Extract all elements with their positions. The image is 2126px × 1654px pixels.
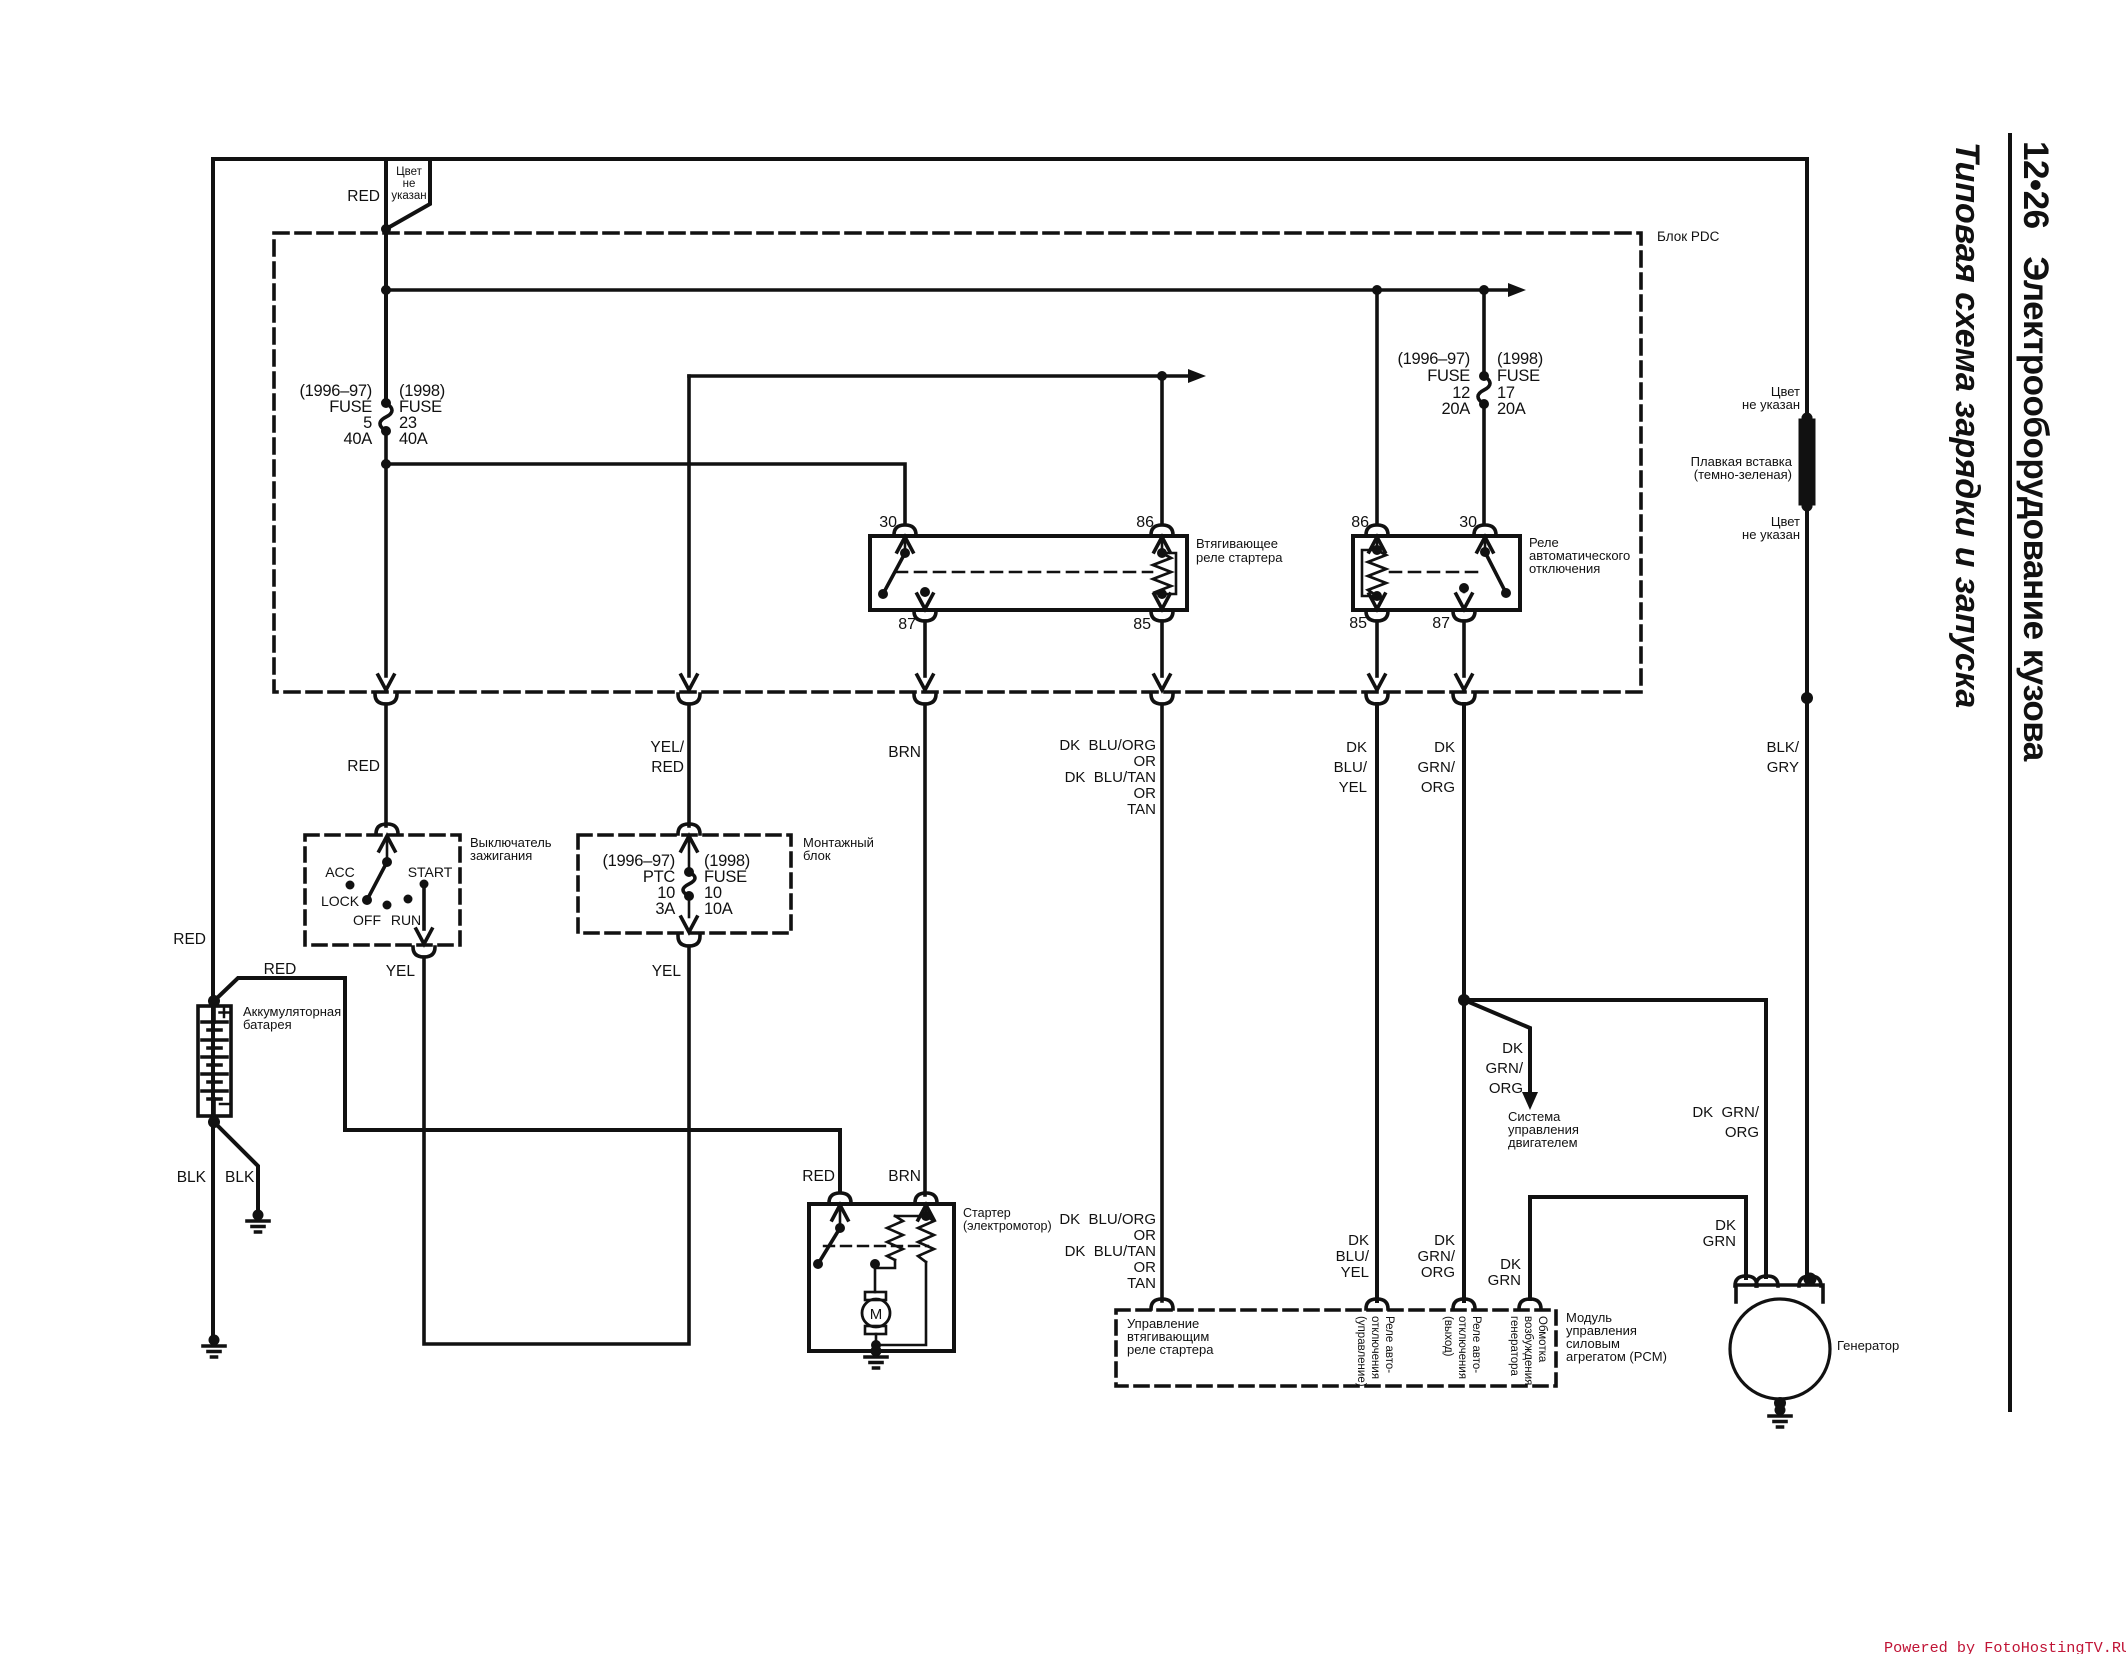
svg-text:BLK/: BLK/ [1766,739,1799,756]
PDC exit connector x=1377 [1369,675,1385,690]
svg-text:M: M [870,1306,883,1323]
relay K1 pin 30 connector [894,525,916,535]
svg-text:OR: OR [1134,785,1157,802]
ignition switch entry connector [376,824,398,834]
svg-text:(электромотор): (электромотор) [963,1219,1052,1233]
svg-text:BRN: BRN [888,1168,921,1185]
relay K2 (automatic shutdown relay) box [1353,536,1520,610]
svg-text:YEL: YEL [652,963,682,980]
node: junction dot at y=290 bus [381,285,391,295]
svg-text:ACC: ACC [325,864,355,880]
starter motor return loop [876,1262,926,1345]
relay K1 coil [1157,548,1167,558]
relay K2 switch [1480,547,1490,557]
junction block dashed box [578,835,791,933]
wire: x=1162 down to relay K1 pin 86 [1160,376,1164,524]
svg-text:40A: 40A [344,430,373,448]
battery (Аккумуляторная батарея) [198,1006,231,1116]
svg-text:12•26 Электрооборудование ку: 12•26 Электрооборудование кузова [2016,141,2055,762]
node: battery positive junction [208,995,220,1007]
svg-text:START: START [408,864,453,880]
svg-text:не указан: не указан [1742,527,1800,542]
wire: K2 pin 87 down to PDC edge [1462,621,1466,676]
wire: battery negative branch to ground [214,1122,258,1209]
wire: x=1377 from y=290 bus to relay K2 pin 86 [1375,290,1379,524]
PDC block dashed box [274,233,1641,692]
starter coil tap to motor [875,1260,895,1268]
svg-text:(1998): (1998) [1497,350,1543,368]
battery minus sign [220,1103,229,1106]
PCM entry connector x=1530 [1519,1299,1541,1309]
svg-text:блок: блок [803,848,831,863]
relay K2 internal dashed link [1390,571,1477,574]
svg-text:DK BLU/TAN: DK BLU/TAN [1065,1243,1156,1260]
svg-text:40A: 40A [399,430,428,448]
ground G1 bottom left [203,1335,225,1358]
relay K2 pin 85 [1369,594,1385,609]
starter motor box [809,1204,954,1351]
svg-text:TAN: TAN [1127,801,1156,818]
svg-text:не: не [403,178,416,190]
node: battery negative junction [208,1116,220,1128]
node: dot on generator BLK/GRY terminal [1804,1273,1817,1286]
wire: K1 pin 85 down to PDC edge [1160,621,1164,676]
svg-text:Powered by FotoHostingTV.RU: Powered by FotoHostingTV.RU [1884,1639,2126,1654]
node: junction dot x=1484 on y=290 bus [1479,285,1489,295]
svg-text:87: 87 [898,616,916,633]
ignition switch dashed box [305,835,460,945]
svg-text:Генератор: Генератор [1837,1338,1899,1353]
svg-text:BRN: BRN [888,744,921,761]
svg-text:87: 87 [1432,615,1450,632]
svg-text:ORG: ORG [1725,1124,1759,1141]
starter BRN entry connector [915,1193,937,1203]
fuse F3 (junction block) [684,867,694,877]
wire: x=1484 from y=290 bus to fuse F2 [1482,290,1486,376]
svg-text:FUSE: FUSE [1497,367,1540,385]
svg-text:DK BLU/ORG: DK BLU/ORG [1059,737,1156,754]
svg-text:зажигания: зажигания [470,848,532,863]
svg-text:(темно-зеленая): (темно-зеленая) [1694,467,1792,482]
node: junction dot x=1377 on y=290 bus [1372,285,1382,295]
svg-text:(1996–97): (1996–97) [1397,350,1470,368]
wire: x=386 from fuse F1 down to PDC bottom [384,431,388,676]
svg-text:ORG: ORG [1421,779,1455,796]
svg-text:DK: DK [1434,739,1455,756]
svg-text:GRY: GRY [1767,759,1799,776]
wire: jog branch (colour not specified) [386,159,430,229]
svg-text:DK: DK [1348,1232,1369,1249]
node: junction dot on RED drop [381,224,391,234]
fuse F2 (PDC 20A) [1479,371,1489,381]
svg-text:Цвет: Цвет [396,166,423,178]
starter solenoid switch [835,1223,845,1233]
junction block entry connector [678,824,700,834]
node: junction dot on BLK/GRY wire [1801,692,1813,704]
wire: DK GRN from PCM to generator [1530,1197,1746,1299]
svg-text:RED: RED [264,961,297,978]
wire: DK GRN/ORG run to PCM [1462,704,1466,1301]
svg-text:LOCK: LOCK [321,893,360,909]
svg-text:3A: 3A [655,900,675,918]
svg-text:20A: 20A [1497,400,1526,418]
svg-text:RED: RED [173,931,206,948]
relay K1 internal dashed link [896,571,1152,574]
svg-text:30: 30 [879,514,897,531]
wire: y=376 branch (to relay K1 pin 86) [689,374,1188,378]
wire: RED drop from bus to PDC [384,159,388,403]
svg-text:GRN/: GRN/ [1486,1060,1524,1077]
battery plus sign [220,1008,229,1017]
svg-text:отключения: отключения [1529,561,1600,576]
generator body (Генератор) [1730,1299,1830,1399]
svg-text:YEL/: YEL/ [650,739,684,756]
PDC exit connector x=386 [378,675,394,690]
relay K1 pin 86 connector [1151,525,1173,535]
relay K2 pin 87 [1459,583,1469,593]
svg-text:RUN: RUN [391,912,421,928]
PDC exit connector x=1162 [1154,675,1170,690]
svg-text:реле стартера: реле стартера [1127,1342,1214,1357]
svg-text:указан: указан [391,190,426,202]
svg-text:реле стартера: реле стартера [1196,550,1283,565]
svg-text:BLU/: BLU/ [1336,1248,1370,1265]
svg-text:DK BLU/ORG: DK BLU/ORG [1059,1211,1156,1228]
svg-text:20A: 20A [1442,400,1471,418]
wire: RED feed from battery to starter [214,978,840,1192]
svg-text:OR: OR [1134,1259,1157,1276]
svg-text:86: 86 [1351,514,1369,531]
generator terminal connectors [1735,1276,1757,1286]
arrow: y=376 continuation [1188,369,1206,383]
svg-text:30: 30 [1459,514,1477,531]
svg-text:ORG: ORG [1489,1080,1523,1097]
PCM entry connector x=1377 [1366,1299,1388,1309]
svg-text:DK GRN/: DK GRN/ [1692,1104,1760,1121]
svg-text:DK: DK [1715,1217,1736,1234]
svg-text:BLK: BLK [177,1169,207,1186]
svg-text:батарея: батарея [243,1017,292,1032]
svg-text:DK: DK [1502,1040,1523,1057]
svg-text:BLK: BLK [225,1169,255,1186]
svg-text:DK: DK [1434,1232,1455,1249]
svg-text:Стартер: Стартер [963,1206,1011,1220]
svg-text:Блок PDC: Блок PDC [1657,229,1720,244]
wire: generator to ground [1774,1397,1786,1409]
wire: K2 pin 85 down to PDC edge [1375,621,1379,676]
ignition switch position contacts [346,881,355,890]
relay K1 pin 85 [1154,594,1170,609]
node: junction dot x=386 y=464 [381,459,391,469]
wire: left battery drop (BLK run to ground) [211,159,215,1334]
svg-text:OR: OR [1134,753,1157,770]
wire: DK BLU/ORG run to PCM [1160,704,1164,1301]
svg-text:агрегатом (PCM): агрегатом (PCM) [1566,1349,1667,1364]
svg-text:GRN/: GRN/ [1418,759,1456,776]
svg-text:85: 85 [1133,616,1151,633]
relay K2 pin 30 connector [1474,525,1496,535]
svg-text:BLU/: BLU/ [1334,759,1368,776]
ground G2 (battery branch) [247,1210,269,1233]
svg-text:DK BLU/TAN: DK BLU/TAN [1065,769,1156,786]
junction block exit connector [688,896,691,917]
svg-text:ORG: ORG [1421,1264,1455,1281]
generator terminal cap [1736,1285,1823,1302]
fusible link (Плавкая вставка) [1802,413,1813,424]
PDC exit connector x=1464 [1456,675,1472,690]
PCM module dashed box [1116,1310,1556,1386]
wire: START contact down to box edge [422,884,426,929]
svg-text:YEL: YEL [1339,779,1367,796]
vertical rule (page divider) [2008,135,2012,1410]
PCM entry connector x=1464 [1453,1299,1475,1309]
svg-text:TAN: TAN [1127,1275,1156,1292]
PCM entry connector x=1162 [1151,1299,1173,1309]
wire: internal PDC bus y=290 [386,288,1508,292]
svg-text:10A: 10A [704,900,733,918]
ground G4 (generator) [1769,1405,1791,1428]
svg-text:GRN: GRN [1488,1272,1521,1289]
starter internal dashed link [824,1245,928,1247]
fuse F1 (PDC 40A) [381,398,391,408]
svg-text:двигателем: двигателем [1508,1135,1578,1150]
svg-text:DK: DK [1500,1256,1521,1273]
svg-text:85: 85 [1349,615,1367,632]
ignition switch wiper [382,857,392,867]
svg-text:86: 86 [1136,514,1154,531]
wire: y=464 branch to relay K1 pin 30 [386,464,905,524]
wire: battery positive feed bus (top horizontal) [213,157,1807,161]
svg-text:GRN: GRN [1703,1233,1736,1250]
wire: branch to engine control system [1464,1000,1530,1092]
svg-text:GRN/: GRN/ [1418,1248,1456,1265]
relay K1 (starter solenoid relay) box [870,536,1187,610]
wire: BRN to starter [923,704,927,1195]
relay K2 coil [1372,545,1382,555]
svg-text:Втягивающее: Втягивающее [1196,536,1278,551]
svg-text:RED: RED [347,188,380,205]
wire: x=1484 fuse F2 down to relay K2 pin 30 [1482,404,1486,524]
wire: K1 pin 87 down to PDC edge [923,621,927,676]
wire: BLK/GRY drop from top bus to generator [1805,159,1809,1277]
svg-text:OFF: OFF [353,912,381,928]
PDC exit connector x=925 [917,675,933,690]
relay K1 switch [900,548,910,558]
starter motor M [865,1292,886,1300]
ground G3 (starter) [865,1346,887,1369]
arrow: bus y=290 continuation [1508,283,1526,297]
node: junction dot x=1464 y=1000 [1458,994,1470,1006]
arrow: engine control system [1522,1092,1538,1110]
relay K2 pin 86 connector [1366,525,1388,535]
svg-text:OR: OR [1134,1227,1157,1244]
svg-text:Типовая схема зарядки и запуск: Типовая схема зарядки и запуска [1948,142,1986,708]
wire: YEL/RED riser x=689 [687,376,691,676]
wire: RED to ignition switch [384,704,388,826]
wire: DK BLU/YEL run to PCM [1375,704,1379,1301]
wire: motor to ground [875,1345,878,1351]
svg-text:RED: RED [651,759,684,776]
svg-text:RED: RED [347,758,380,775]
svg-text:RED: RED [802,1168,835,1185]
wire: branch to generator terminal [1464,1000,1766,1277]
svg-text:не указан: не указан [1742,397,1800,412]
starter solenoid coils [921,1211,931,1221]
relay K1 pin 87 [920,587,930,597]
svg-text:YEL: YEL [386,963,416,980]
starter RED entry connector [829,1193,851,1203]
wire: YEL loop from ignition to junction block [424,946,689,1344]
svg-text:YEL: YEL [1341,1264,1369,1281]
svg-text:DK: DK [1346,739,1367,756]
PDC exit connector x=689 [681,675,697,690]
wire: YEL/RED to junction block [687,704,691,826]
node: junction dot x=1162 y=376 [1157,371,1167,381]
svg-text:FUSE: FUSE [1427,367,1470,385]
